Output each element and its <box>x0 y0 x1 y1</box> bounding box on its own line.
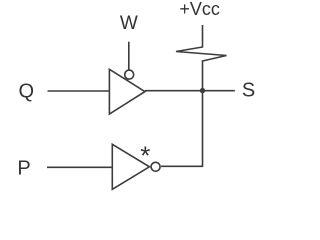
svg-text:Q: Q <box>19 81 35 103</box>
svg-text:W: W <box>120 13 138 34</box>
svg-text:P: P <box>17 158 30 180</box>
svg-text:+Vcc: +Vcc <box>179 0 220 19</box>
svg-text:S: S <box>242 79 255 101</box>
svg-text:*: * <box>140 140 150 170</box>
